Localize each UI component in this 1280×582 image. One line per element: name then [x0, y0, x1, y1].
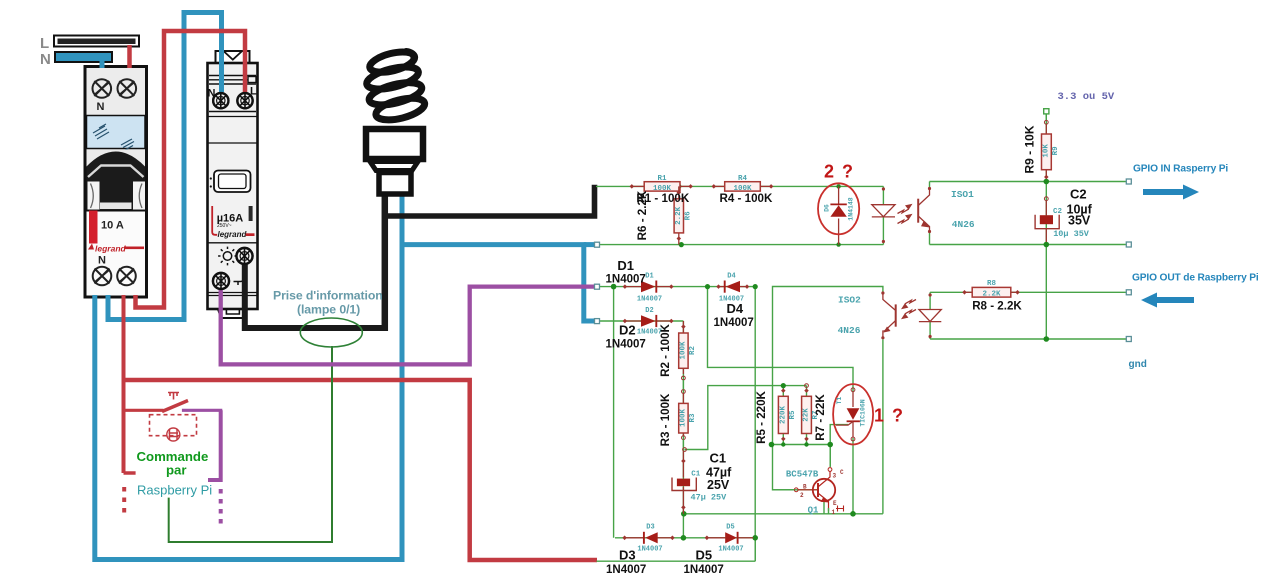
- svg-text:10 A: 10 A: [101, 220, 124, 232]
- svg-text:R9 - 10K: R9 - 10K: [1023, 125, 1037, 173]
- diode D5: [705, 532, 754, 544]
- net ISO1 emitter stub: [929, 230, 931, 245]
- wire neutral teal breaker-bottom-left long drop to bottom rail: [95, 196, 402, 560]
- svg-text:GPIO OUT de Raspberry Pi: GPIO OUT de Raspberry Pi: [1132, 273, 1259, 284]
- svg-text:Prise d'information: Prise d'information: [273, 289, 383, 303]
- svg-text:C: C: [840, 469, 844, 476]
- svg-text:35V: 35V: [1068, 214, 1091, 228]
- svg-text:R4: R4: [738, 175, 748, 183]
- junction gnd rail: [1044, 336, 1050, 342]
- junction D4 cathode tap: [753, 284, 758, 289]
- breaker blue window: [87, 116, 146, 149]
- junction R5 top rail: [781, 383, 786, 388]
- svg-text:25V: 25V: [707, 478, 730, 492]
- net R5 R7 bottom rail: [772, 444, 831, 446]
- svg-text:N: N: [97, 101, 105, 113]
- hatch scribbles: [93, 124, 134, 150]
- contactor top terminal block details: [209, 76, 256, 112]
- svg-text:D3: D3: [646, 524, 654, 532]
- junction C1 bottom emitter rail: [681, 511, 687, 517]
- resistor R9 vertical: [1042, 114, 1052, 179]
- svg-text:2.2K: 2.2K: [675, 206, 683, 225]
- net 3.3V R9 C2 vertical: [1045, 114, 1047, 339]
- svg-text:4N26: 4N26: [838, 325, 861, 336]
- wire crimson horizontal to phase-return: [124, 380, 598, 560]
- net D4 anode drop: [708, 287, 854, 392]
- legrand logo breaker: [88, 244, 144, 254]
- diode D2: [623, 315, 674, 327]
- svg-text:legrand: legrand: [95, 244, 127, 254]
- contactor screw top-left overlay: [213, 93, 228, 108]
- wire switch crimson left contact: [126, 409, 164, 412]
- svg-text:R5 - 220K: R5 - 220K: [755, 390, 768, 443]
- svg-text:1N4007: 1N4007: [637, 546, 662, 554]
- svg-text:ISO2: ISO2: [838, 295, 861, 306]
- bus bar N: [55, 52, 112, 62]
- svg-text:R6: R6: [685, 211, 693, 221]
- wire black lamp left pin down: [382, 194, 389, 331]
- net R2 R3 C1 chain vertical: [682, 321, 684, 538]
- svg-text:100K: 100K: [680, 341, 688, 360]
- svg-text:1N4007: 1N4007: [718, 546, 743, 554]
- diode D4 (points left): [716, 281, 749, 293]
- net R5 top lead: [782, 386, 784, 396]
- contactor screw top-right overlay: [237, 93, 252, 108]
- arrow GPIO IN: [1143, 185, 1199, 200]
- svg-text:1N4007: 1N4007: [637, 296, 662, 304]
- net R7 bottom lead: [806, 434, 808, 445]
- wire purple dotted continuation: [219, 489, 223, 526]
- junction R6 bottom on mains bottom rail: [679, 242, 684, 247]
- net ISO1 LED top lead: [882, 186, 884, 205]
- junction C1 leg on D3 D5 rail: [681, 535, 687, 541]
- contactor separator: [208, 242, 257, 244]
- wire crimson dotted continuation: [122, 487, 126, 518]
- net R1 rail top mains: [596, 185, 883, 187]
- junction R6 top on R1 rail: [676, 184, 681, 189]
- breaker rocker black section: [87, 150, 146, 211]
- svg-text:(lampe 0/1): (lampe 0/1): [297, 303, 360, 317]
- svg-text:R1: R1: [657, 175, 667, 183]
- svg-text:GPIO IN Rasperry Pi: GPIO IN Rasperry Pi: [1133, 164, 1228, 175]
- svg-text:C2: C2: [1053, 208, 1063, 216]
- transistor Q1 BC547B: [773, 468, 845, 514]
- diode D3 (points left): [622, 532, 674, 544]
- net T1 gate collector link: [830, 425, 848, 467]
- junction T1 cathode emitter rail: [850, 511, 856, 517]
- wire live crimson from L-bar to breaker top: [127, 45, 132, 68]
- arrow GPIO OUT: [1141, 293, 1194, 308]
- terminal pin neutral to D2 anode: [595, 319, 600, 324]
- junction node D1 anode tap: [611, 284, 617, 290]
- breaker screw terminal bottom-left: [93, 267, 112, 286]
- breaker screw terminal bottom-right: [117, 267, 136, 286]
- net R3 bottom to R5 R7 top rail: [685, 386, 807, 450]
- svg-text:22K: 22K: [803, 408, 811, 422]
- net D3 D5 rail: [615, 537, 755, 539]
- svg-text:par: par: [166, 463, 187, 478]
- wire teal from lamp pin to ISO1 LED rail: [402, 245, 597, 321]
- diode D1: [623, 281, 674, 293]
- svg-text:1N4007: 1N4007: [606, 274, 646, 286]
- resistor R2 vertical: [679, 321, 688, 393]
- svg-text:D2: D2: [645, 307, 653, 315]
- svg-text:47µ 25V: 47µ 25V: [691, 493, 728, 503]
- svg-text:D4: D4: [727, 301, 744, 316]
- wire neutral teal from N-bar to breaker top: [100, 60, 105, 68]
- capacitor C1 polarized: [672, 452, 696, 514]
- svg-text:2.2K: 2.2K: [982, 291, 1001, 299]
- net D2 rail: [597, 320, 683, 322]
- svg-text:TIC106N: TIC106N: [860, 399, 867, 426]
- svg-text:10µ 35V: 10µ 35V: [1053, 229, 1090, 239]
- svg-text:1N4148: 1N4148: [848, 197, 855, 221]
- svg-text:2: 2: [800, 492, 804, 499]
- rating seal black box: [249, 206, 253, 221]
- svg-text:1N4007: 1N4007: [714, 317, 754, 329]
- resistor R8: [962, 287, 1020, 297]
- contactor bottom lip: [210, 309, 255, 318]
- net R7 top lead: [806, 386, 808, 396]
- svg-text:D4: D4: [727, 273, 735, 281]
- THICK-WIRES: [95, 13, 597, 561]
- supply open square 3.3V: [1044, 109, 1049, 114]
- net ISO2 collector box: [773, 287, 883, 490]
- contactor window: [214, 171, 251, 193]
- svg-text:1N4007: 1N4007: [606, 564, 646, 576]
- MODULES: [40, 35, 258, 318]
- circuit breaker module: [85, 67, 147, 298]
- net bottom live rail: [597, 560, 756, 562]
- wire black lamp to R1 net: [385, 185, 595, 216]
- svg-text:BC547B: BC547B: [786, 470, 819, 480]
- contactor screw top-left: [213, 93, 228, 108]
- breaker white label section: [87, 212, 146, 296]
- relay coil circle symbol: [167, 428, 180, 441]
- CFL spiral tube: [360, 48, 429, 125]
- net ISO1 collector stub: [929, 182, 931, 191]
- wire crimson stub jog: [124, 471, 136, 475]
- terminal pin GPIO IN: [1126, 179, 1131, 184]
- junction T1 gate rail right: [827, 442, 833, 448]
- resistor R6 vertical: [674, 186, 683, 244]
- bus bar L: [54, 36, 139, 47]
- net ISO1 emitter rail to gpio: [930, 244, 1129, 246]
- junction D6 anode: [836, 184, 840, 188]
- wire live crimson breaker to contactor L (up and over): [136, 31, 246, 308]
- contactor screw out-right: [237, 248, 253, 264]
- contactor mid separators: [208, 117, 257, 144]
- dots left of window: [210, 177, 212, 179]
- optocoupler ISO1: [872, 187, 931, 243]
- lamp icon: [218, 247, 237, 266]
- LAMP: [360, 48, 429, 194]
- CFL base upper: [366, 129, 423, 159]
- svg-text:R2: R2: [689, 346, 697, 356]
- svg-text:1N4007: 1N4007: [606, 339, 646, 351]
- svg-text:1: 1: [832, 509, 836, 516]
- svg-text:ISO1: ISO1: [951, 189, 974, 200]
- svg-text:R6 - 2.2K: R6 - 2.2K: [636, 190, 649, 240]
- svg-text:R5: R5: [789, 410, 797, 420]
- net ISO1 LED bottom lead: [882, 217, 884, 245]
- resistor R4: [712, 182, 774, 191]
- contactor screw out-right overlay: [237, 248, 253, 264]
- svg-text:1N4007: 1N4007: [684, 564, 724, 576]
- hook icon: [234, 279, 244, 286]
- terminal pin lamp sense to D1 rail: [595, 284, 600, 289]
- breaker screw terminal top-left: [93, 79, 112, 98]
- contactor bottom separators: [208, 293, 257, 296]
- junction C2 minus emitter rail: [1044, 242, 1050, 248]
- net D1 D4 rail: [597, 286, 755, 288]
- CFL screw cap: [379, 173, 411, 195]
- svg-text:3.3 ou 5V: 3.3 ou 5V: [1058, 91, 1115, 103]
- net bottom right corner: [754, 538, 756, 561]
- net D4 right vertical to bottom: [754, 287, 756, 562]
- resistor R1: [630, 182, 693, 191]
- terminal pin emitter rail: [1126, 242, 1131, 247]
- wire black contactor A2 to lamp: [245, 258, 386, 328]
- svg-text:B: B: [803, 484, 807, 491]
- svg-text:10K: 10K: [1043, 144, 1051, 158]
- resistor R5 vertical: [778, 388, 788, 441]
- junction D6 cathode: [836, 242, 840, 246]
- svg-text:E: E: [833, 500, 837, 507]
- svg-text:D5: D5: [696, 548, 713, 563]
- CFL base taper: [370, 162, 418, 171]
- wire purple down from switch: [208, 410, 221, 480]
- diode D6 1N4148 in query circle: [818, 183, 859, 244]
- net Q1 collector stub: [829, 445, 831, 468]
- svg-text:gnd: gnd: [1129, 359, 1147, 370]
- svg-text:R4 - 100K: R4 - 100K: [720, 192, 773, 205]
- contactor top clip: [216, 51, 250, 63]
- contactor module: [208, 51, 258, 318]
- terminal pin GPIO OUT: [1126, 290, 1131, 295]
- wire green commande from raspberry to lamp tap: [169, 346, 332, 542]
- svg-text:C1: C1: [710, 451, 727, 466]
- terminal pin gnd: [1126, 337, 1131, 342]
- svg-text:D5: D5: [726, 524, 734, 532]
- svg-text:R8 - 2.2K: R8 - 2.2K: [972, 300, 1022, 313]
- contactor body: [208, 63, 258, 309]
- Q1 pin numbers: [800, 469, 844, 516]
- svg-text:4N26: 4N26: [952, 219, 975, 230]
- svg-text:D6: D6: [824, 204, 831, 212]
- svg-text:R3 - 100K: R3 - 100K: [659, 393, 672, 446]
- net Q1 emitter stub: [823, 501, 825, 514]
- svg-text:D1: D1: [645, 273, 653, 281]
- optocoupler ISO2: [881, 291, 941, 339]
- svg-text:L: L: [40, 35, 49, 52]
- net GPIO IN rail: [930, 181, 1129, 183]
- svg-text:3: 3: [833, 473, 837, 480]
- GREEN-NETS: [596, 114, 1129, 561]
- contactor screw out-left: [213, 273, 229, 289]
- svg-text:220K: 220K: [780, 406, 788, 425]
- svg-text:T1: T1: [836, 397, 843, 405]
- svg-text:D2: D2: [619, 323, 636, 338]
- svg-text:100K: 100K: [680, 409, 688, 428]
- junction Q1 base rail left: [769, 442, 775, 448]
- junction D5 cathode riser: [752, 535, 758, 541]
- net ISO2 LED top lead: [929, 292, 931, 310]
- wire purple switch right contact: [182, 409, 222, 412]
- svg-text:N: N: [98, 255, 106, 267]
- resistor R3 vertical: [679, 394, 688, 452]
- svg-text:R9: R9: [1052, 146, 1060, 156]
- svg-text:N: N: [40, 51, 51, 68]
- svg-text:Raspberry Pi: Raspberry Pi: [137, 483, 212, 498]
- wire neutral teal breaker to contactor N (up and over): [108, 13, 222, 320]
- contactor screw out-left overlay: [213, 273, 229, 289]
- junction R9 bottom GPIO IN: [1044, 179, 1050, 185]
- green ellipse tap marker: [300, 318, 362, 347]
- net ISO2 LED bottom lead: [929, 322, 931, 339]
- svg-text:R3: R3: [689, 413, 697, 423]
- terminal pin neutral to D2 rail: [595, 242, 600, 247]
- net gnd rail: [930, 338, 1129, 340]
- switch actuator T mark: [168, 393, 179, 400]
- breaker screw terminal top-right: [118, 79, 137, 98]
- net R8 GPIO OUT rail: [930, 291, 1129, 293]
- contactor screw top-right: [237, 93, 252, 108]
- svg-text:D3: D3: [619, 548, 636, 563]
- junction D1 cathode D4 anode: [705, 284, 710, 289]
- red 10A bar: [89, 211, 98, 244]
- net D1 junction drop to D3 rail: [613, 287, 615, 538]
- svg-text:1 ?: 1 ?: [874, 406, 905, 426]
- svg-text:C2: C2: [1070, 187, 1087, 202]
- svg-text:D1: D1: [617, 258, 634, 273]
- net T1 cathode down to emitter rail: [852, 438, 854, 514]
- wire purple contactor A1 down: [221, 287, 595, 365]
- legrand logo contactor: [212, 206, 254, 239]
- net ISO2 emitter drop: [882, 339, 884, 513]
- resistor R7 vertical: [802, 384, 812, 441]
- net R5 bottom lead: [782, 434, 784, 445]
- svg-text:Q1: Q1: [808, 506, 819, 516]
- switch blade: [162, 401, 188, 412]
- svg-text:R2 - 100K: R2 - 100K: [659, 323, 672, 376]
- wire live crimson breaker-bottom drop to switch: [122, 295, 126, 473]
- svg-text:2 ?: 2 ?: [824, 162, 855, 182]
- thyristor T1 TIC106N in query ellipse: [833, 384, 873, 444]
- net mains bottom rail to ISO1 LED: [597, 244, 883, 246]
- wire teal stub to D2 pin: [584, 242, 595, 247]
- svg-text:R7 - 22K: R7 - 22K: [814, 394, 827, 441]
- svg-text:R8: R8: [987, 280, 997, 288]
- svg-text:legrand: legrand: [218, 230, 248, 239]
- svg-text:250V~: 250V~: [217, 223, 232, 229]
- capacitor C2 polarized: [1035, 197, 1059, 242]
- junction R7 bottom: [804, 442, 808, 446]
- svg-text:C1: C1: [691, 470, 701, 478]
- net Q1 emitter rail: [684, 513, 883, 515]
- contactor screw overlays: [213, 93, 253, 289]
- junction R5 bottom: [781, 442, 785, 446]
- relay dashed box: [150, 415, 197, 436]
